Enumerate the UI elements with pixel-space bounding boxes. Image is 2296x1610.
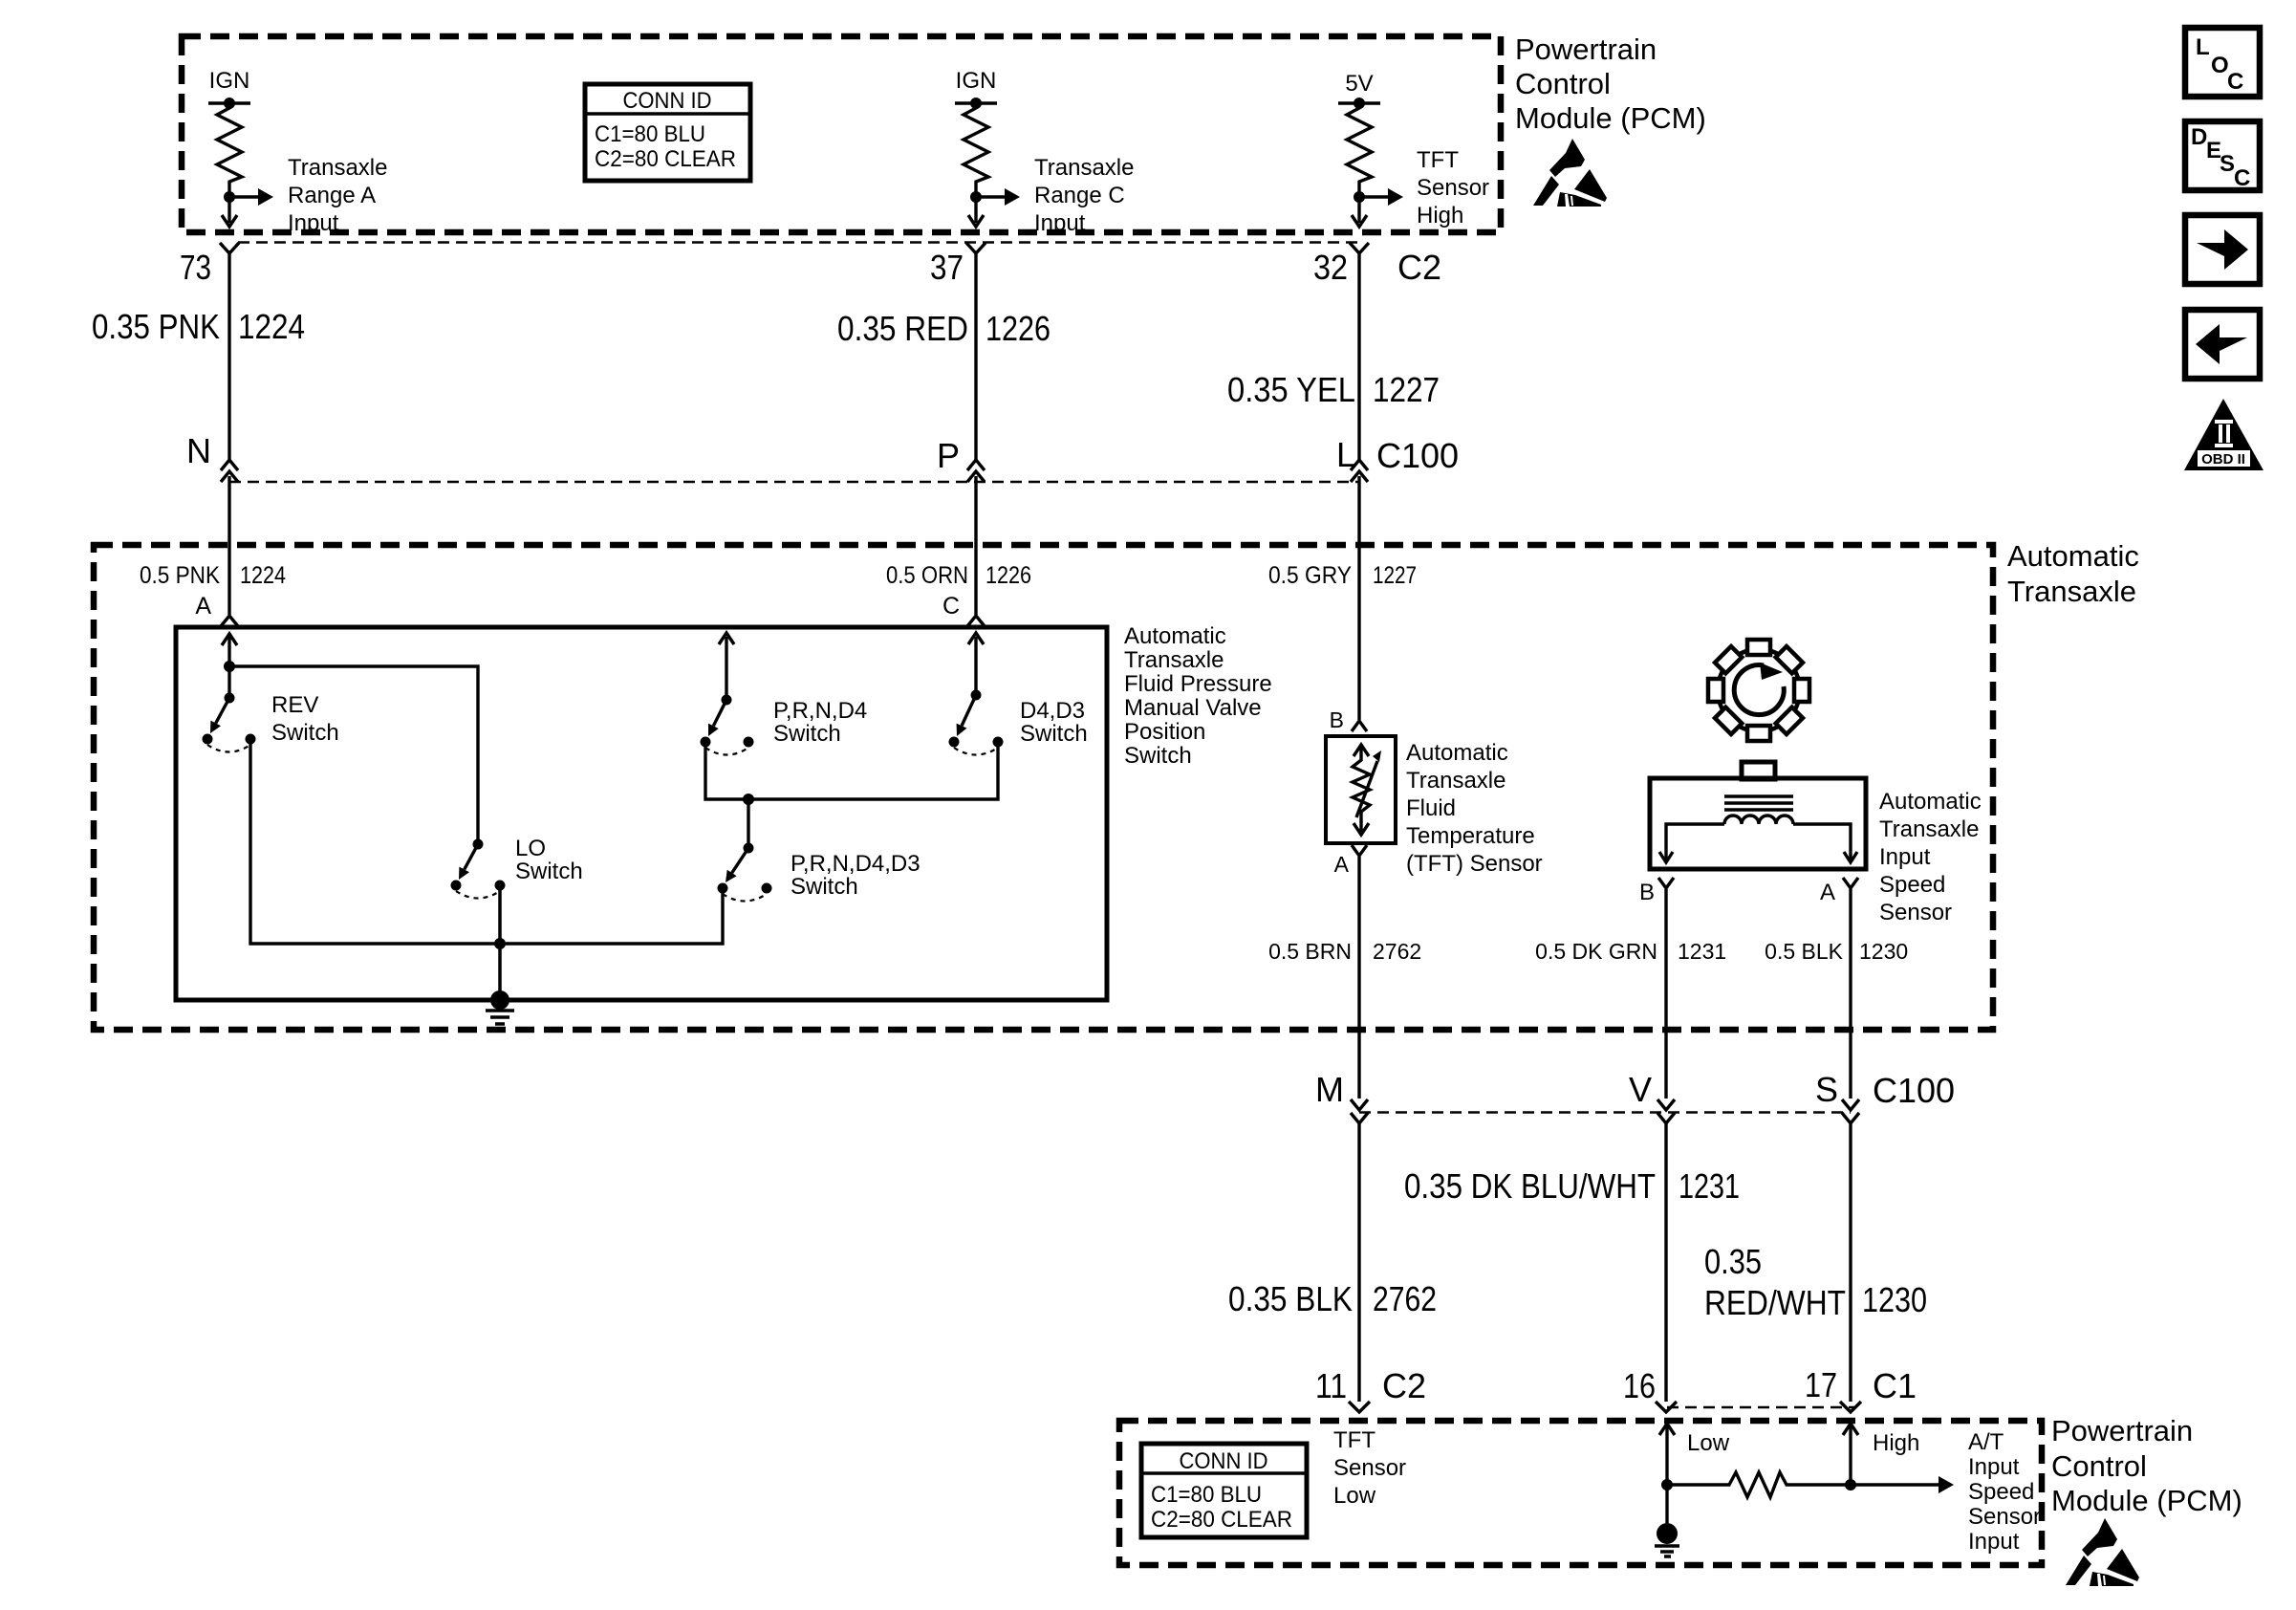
- svg-text:D4,D3: D4,D3: [1020, 698, 1085, 724]
- wire junction A to LO pivot: [229, 666, 478, 844]
- svg-text:Automatic: Automatic: [1879, 789, 1982, 815]
- svg-text:S: S: [1815, 1070, 1838, 1109]
- wire 1231 to C100: [1664, 889, 1667, 1099]
- wire 2762 to pin 11: [1357, 1123, 1360, 1402]
- svg-text:(TFT) Sensor: (TFT) Sensor: [1406, 851, 1543, 877]
- terminal L: [1351, 460, 1368, 470]
- svg-text:0.5 BRN: 0.5 BRN: [1268, 939, 1352, 964]
- svg-text:Transaxle: Transaxle: [1406, 768, 1505, 794]
- P,R,N,D4 feed arrow: [719, 633, 734, 644]
- svg-text:A: A: [195, 593, 211, 620]
- svg-text:OBD II: OBD II: [2201, 451, 2245, 468]
- svg-text:0.35 YEL: 0.35 YEL: [1227, 370, 1355, 409]
- svg-text:Switch: Switch: [1020, 721, 1088, 747]
- pin 11 / C2: [1349, 1402, 1370, 1412]
- svg-text:1224: 1224: [240, 562, 286, 589]
- D4,D3 feed arrow from C: [968, 633, 984, 644]
- svg-text:1230: 1230: [1862, 1280, 1927, 1319]
- CONN ID table (bottom): [1141, 1444, 1307, 1537]
- ESD sensitive symbol (bottom): [2066, 1518, 2139, 1586]
- pin 73 terminal: [220, 243, 239, 253]
- coil lead A: [1793, 824, 1851, 860]
- wire 1226 C100 to switch C: [974, 476, 977, 615]
- svg-text:A: A: [1334, 852, 1350, 877]
- svg-text:P: P: [937, 436, 960, 475]
- svg-text:CONN ID: CONN ID: [623, 88, 712, 114]
- svg-text:0.5 DK GRN: 0.5 DK GRN: [1535, 939, 1657, 964]
- inductor coil: [1724, 816, 1793, 824]
- svg-text:Sensor: Sensor: [1417, 175, 1489, 201]
- svg-text:Low: Low: [1333, 1483, 1376, 1509]
- D4,D3 switch: [971, 690, 982, 701]
- svg-text:Manual Valve: Manual Valve: [1124, 695, 1262, 721]
- wire 1231 to pin 16: [1664, 1123, 1667, 1402]
- svg-text:Speed: Speed: [1968, 1479, 2034, 1505]
- svg-text:IGN: IGN: [209, 68, 250, 94]
- Low input arrow: [1659, 1424, 1675, 1435]
- svg-text:1226: 1226: [986, 309, 1051, 348]
- terminal V: [1657, 1099, 1675, 1110]
- svg-text:C: C: [942, 593, 960, 620]
- svg-text:Temperature: Temperature: [1406, 823, 1535, 849]
- svg-text:1224: 1224: [238, 307, 305, 346]
- svg-text:Speed: Speed: [1879, 872, 1945, 898]
- wire 1227 C100 to TFT B: [1357, 476, 1360, 720]
- svg-text:Automatic: Automatic: [1406, 740, 1508, 766]
- svg-text:11: 11: [1315, 1366, 1347, 1405]
- svg-text:0.35 PNK: 0.35 PNK: [92, 307, 220, 346]
- terminal S: [1842, 1099, 1859, 1110]
- svg-text:Transaxle: Transaxle: [1124, 647, 1224, 673]
- svg-text:P,R,N,D4,D3: P,R,N,D4,D3: [791, 851, 921, 877]
- wire PRND4/D4D3 contacts bus: [705, 742, 998, 799]
- svg-text:O: O: [2211, 53, 2229, 78]
- svg-text:C1=80 BLU: C1=80 BLU: [1151, 1482, 1262, 1508]
- svg-text:C2=80 CLEAR: C2=80 CLEAR: [1151, 1507, 1292, 1533]
- wire 1226 PCM to C100: [974, 253, 977, 460]
- svg-text:0.35 DK BLU/WHT: 0.35 DK BLU/WHT: [1404, 1166, 1656, 1206]
- manual valve position switch box: [176, 627, 1107, 1000]
- svg-text:1227: 1227: [1373, 370, 1440, 409]
- svg-text:Range A: Range A: [288, 183, 376, 208]
- svg-text:L: L: [1336, 435, 1355, 474]
- svg-text:1226: 1226: [986, 562, 1031, 589]
- svg-text:1227: 1227: [1373, 562, 1417, 589]
- TFT thermistor symbol: [1354, 745, 1369, 756]
- PCM module dashed box (top): [182, 36, 1501, 232]
- svg-text:0.35 RED: 0.35 RED: [837, 309, 968, 348]
- svg-text:C: C: [2227, 69, 2243, 95]
- svg-text:LO: LO: [515, 836, 546, 861]
- svg-text:M: M: [1315, 1070, 1344, 1109]
- svg-text:P,R,N,D4: P,R,N,D4: [773, 698, 867, 724]
- svg-text:Powertrain: Powertrain: [1515, 33, 1657, 66]
- svg-text:REV: REV: [271, 692, 318, 718]
- wire LO contact to ground: [498, 885, 502, 1000]
- junction to P,R,N,D4,D3 pivot: [743, 794, 754, 805]
- wire 2762 TFT A to C100: [1357, 857, 1360, 1099]
- svg-text:Module (PCM): Module (PCM): [2051, 1484, 2242, 1517]
- svg-text:C: C: [2234, 165, 2250, 191]
- svg-text:Fluid: Fluid: [1406, 795, 1456, 821]
- svg-text:Position: Position: [1124, 719, 1205, 745]
- svg-text:Input: Input: [288, 210, 339, 236]
- P,R,N,D4 switch: [722, 695, 732, 706]
- PCM module dashed box (bottom): [1119, 1421, 2042, 1565]
- connector C100 dashed line: [229, 481, 1359, 484]
- svg-text:2762: 2762: [1373, 939, 1421, 964]
- svg-text:Input: Input: [1879, 844, 1931, 870]
- A feed arrow into box: [222, 634, 237, 645]
- wire 1224 PCM to C100: [227, 253, 230, 460]
- coil lead B: [1666, 824, 1724, 860]
- OBD II icon: [2184, 399, 2264, 470]
- svg-text:High: High: [1417, 203, 1463, 228]
- LO switch: [473, 839, 484, 850]
- svg-text:C2: C2: [1382, 1366, 1426, 1405]
- svg-text:Transaxle: Transaxle: [2007, 575, 2136, 608]
- svg-text:Switch: Switch: [515, 859, 583, 884]
- Automatic Transaxle dashed box: [94, 545, 1993, 1030]
- input speed sensor box: [1650, 778, 1866, 869]
- terminal N: [221, 460, 238, 470]
- svg-text:16: 16: [1623, 1366, 1656, 1405]
- back arrow icon: [2185, 310, 2260, 379]
- svg-text:C1=80 BLU: C1=80 BLU: [595, 121, 705, 147]
- svg-text:0.35 BLK: 0.35 BLK: [1228, 1279, 1353, 1318]
- wire REV contact to PRND4D3 contact (bus): [250, 739, 723, 944]
- DESC icon: [2185, 121, 2260, 190]
- wire 1224 C100 to switch A: [227, 476, 230, 615]
- svg-text:0.5 GRY: 0.5 GRY: [1268, 562, 1352, 589]
- node A junction: [224, 661, 235, 672]
- svg-text:Range C: Range C: [1034, 183, 1125, 208]
- inductor core: [1724, 794, 1793, 797]
- svg-text:C1: C1: [1873, 1366, 1917, 1405]
- svg-text:N: N: [186, 431, 211, 470]
- svg-text:A: A: [1820, 880, 1835, 905]
- pin 16: [1656, 1402, 1677, 1412]
- svg-text:Transaxle: Transaxle: [1034, 155, 1134, 181]
- svg-text:A/T: A/T: [1968, 1429, 2004, 1455]
- svg-text:Low: Low: [1687, 1430, 1730, 1456]
- REV switch: [225, 693, 235, 704]
- svg-text:C2=80 CLEAR: C2=80 CLEAR: [595, 146, 736, 172]
- svg-text:Automatic: Automatic: [1124, 623, 1226, 649]
- LOC icon: [2185, 28, 2260, 97]
- svg-text:B: B: [1639, 880, 1655, 905]
- P,R,N,D4,D3 switch: [744, 843, 754, 854]
- svg-text:CONN ID: CONN ID: [1180, 1448, 1268, 1474]
- svg-text:Transaxle: Transaxle: [1879, 816, 1979, 842]
- svg-text:73: 73: [180, 248, 211, 287]
- svg-text:Switch: Switch: [791, 874, 858, 900]
- svg-text:0.5 BLK: 0.5 BLK: [1765, 939, 1843, 964]
- forward arrow icon: [2185, 215, 2260, 284]
- svg-text:Control: Control: [1515, 67, 1611, 100]
- svg-text:0.35: 0.35: [1704, 1242, 1762, 1281]
- svg-text:D: D: [2191, 124, 2207, 150]
- svg-text:Powertrain: Powertrain: [2051, 1414, 2193, 1447]
- TFT sensor box: [1326, 736, 1396, 843]
- terminal P: [967, 460, 985, 470]
- svg-text:C100: C100: [1873, 1071, 1955, 1110]
- svg-text:V: V: [1629, 1070, 1652, 1109]
- wire 1227 PCM to C100: [1357, 253, 1360, 460]
- svg-text:37: 37: [930, 248, 964, 287]
- connector C1 dashed line: [1667, 1406, 1854, 1409]
- svg-text:1231: 1231: [1679, 1166, 1740, 1206]
- svg-text:Input: Input: [1968, 1529, 2020, 1555]
- svg-text:Sensor: Sensor: [1879, 900, 1952, 925]
- rotation arrow: [1734, 665, 1784, 715]
- svg-text:C100: C100: [1376, 436, 1459, 475]
- svg-text:C2: C2: [1397, 248, 1441, 287]
- svg-text:2762: 2762: [1373, 1279, 1437, 1318]
- svg-text:Switch: Switch: [1124, 743, 1192, 769]
- svg-text:High: High: [1873, 1430, 1919, 1456]
- gear icon: [1718, 649, 1800, 731]
- svg-text:5V: 5V: [1345, 71, 1373, 97]
- internal resistor R-low-high: [1661, 1479, 1673, 1490]
- ESD sensitive symbol (top): [1533, 139, 1607, 207]
- High input arrow: [1843, 1424, 1858, 1435]
- svg-text:Fluid Pressure: Fluid Pressure: [1124, 671, 1272, 697]
- svg-text:B: B: [1330, 707, 1344, 732]
- junction bus/ground: [494, 938, 506, 949]
- svg-text:0.5 PNK: 0.5 PNK: [140, 562, 220, 589]
- svg-text:IGN: IGN: [956, 68, 997, 94]
- svg-text:Switch: Switch: [773, 721, 841, 747]
- svg-text:Control: Control: [2051, 1449, 2147, 1483]
- svg-text:Switch: Switch: [271, 720, 339, 746]
- ground (switch assembly): [490, 990, 509, 1010]
- pin 32 terminal: [1350, 243, 1369, 253]
- svg-text:1230: 1230: [1859, 939, 1908, 964]
- pin 37 terminal: [966, 243, 986, 253]
- svg-text:Module (PCM): Module (PCM): [1515, 101, 1706, 135]
- svg-text:1231: 1231: [1678, 939, 1726, 964]
- ground (PCM): [1665, 1485, 1668, 1528]
- svg-text:Transaxle: Transaxle: [288, 155, 387, 181]
- svg-text:17: 17: [1805, 1365, 1837, 1404]
- svg-text:S: S: [2220, 151, 2235, 177]
- CONN ID table (top): [585, 84, 750, 181]
- connector C100 dashed line (lower): [1359, 1111, 1851, 1114]
- connector C2 dashed line: [238, 241, 1359, 244]
- svg-text:Input: Input: [1968, 1454, 2020, 1480]
- svg-text:0.5 ORN: 0.5 ORN: [886, 562, 968, 589]
- svg-text:TFT: TFT: [1333, 1427, 1375, 1453]
- wire 1230 to C100: [1849, 889, 1852, 1099]
- pin 17 / C1: [1840, 1402, 1861, 1412]
- svg-text:L: L: [2196, 34, 2210, 60]
- svg-text:32: 32: [1313, 248, 1348, 287]
- terminal M: [1351, 1099, 1368, 1110]
- wire 1230 to pin 17: [1849, 1123, 1852, 1402]
- svg-text:Automatic: Automatic: [2007, 539, 2139, 573]
- svg-text:RED/WHT: RED/WHT: [1704, 1283, 1846, 1322]
- svg-text:TFT: TFT: [1417, 147, 1459, 173]
- svg-text:Input: Input: [1034, 210, 1086, 236]
- svg-text:Sensor: Sensor: [1968, 1504, 2041, 1530]
- svg-text:Sensor: Sensor: [1333, 1455, 1406, 1481]
